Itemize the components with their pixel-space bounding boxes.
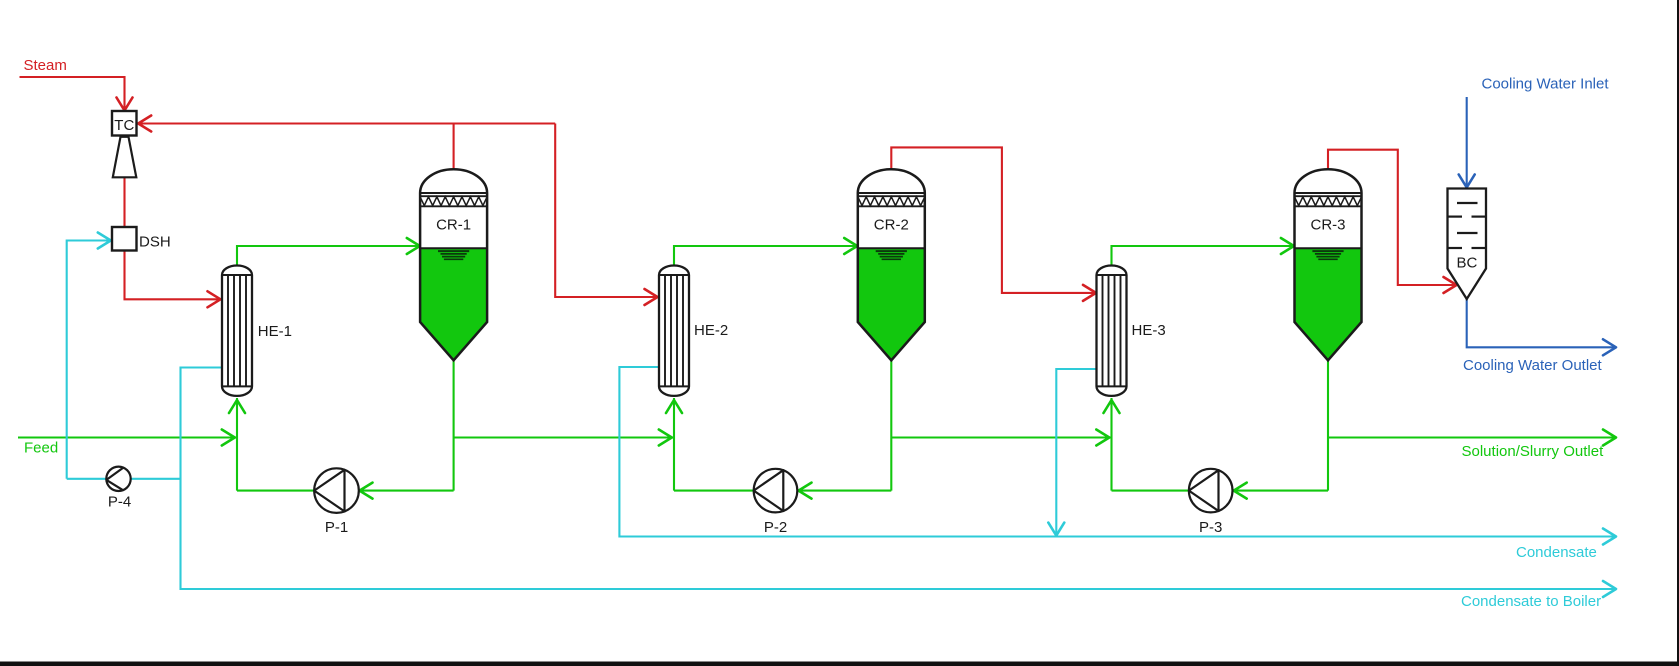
svg-text:Steam: Steam <box>24 57 67 74</box>
svg-text:Cooling Water Outlet: Cooling Water Outlet <box>1463 357 1603 374</box>
svg-text:HE-1: HE-1 <box>258 323 292 340</box>
svg-text:HE-2: HE-2 <box>694 322 728 339</box>
svg-text:CR-1: CR-1 <box>436 217 471 234</box>
svg-text:HE-3: HE-3 <box>1132 322 1166 339</box>
svg-text:Condensate to Boiler: Condensate to Boiler <box>1461 593 1601 610</box>
svg-text:TC: TC <box>114 117 134 134</box>
svg-text:Cooling Water Inlet: Cooling Water Inlet <box>1482 76 1610 93</box>
svg-text:P-4: P-4 <box>108 494 131 511</box>
svg-text:CR-2: CR-2 <box>874 217 909 234</box>
svg-text:P-1: P-1 <box>325 519 348 536</box>
svg-text:P-3: P-3 <box>1199 519 1222 536</box>
svg-text:Condensate: Condensate <box>1516 544 1597 561</box>
svg-text:P-2: P-2 <box>764 519 787 536</box>
svg-text:DSH: DSH <box>139 234 171 251</box>
svg-text:Feed: Feed <box>24 440 58 457</box>
svg-text:Solution/Slurry Outlet: Solution/Slurry Outlet <box>1462 443 1605 460</box>
svg-text:CR-3: CR-3 <box>1310 217 1345 234</box>
svg-text:BC: BC <box>1456 255 1477 272</box>
